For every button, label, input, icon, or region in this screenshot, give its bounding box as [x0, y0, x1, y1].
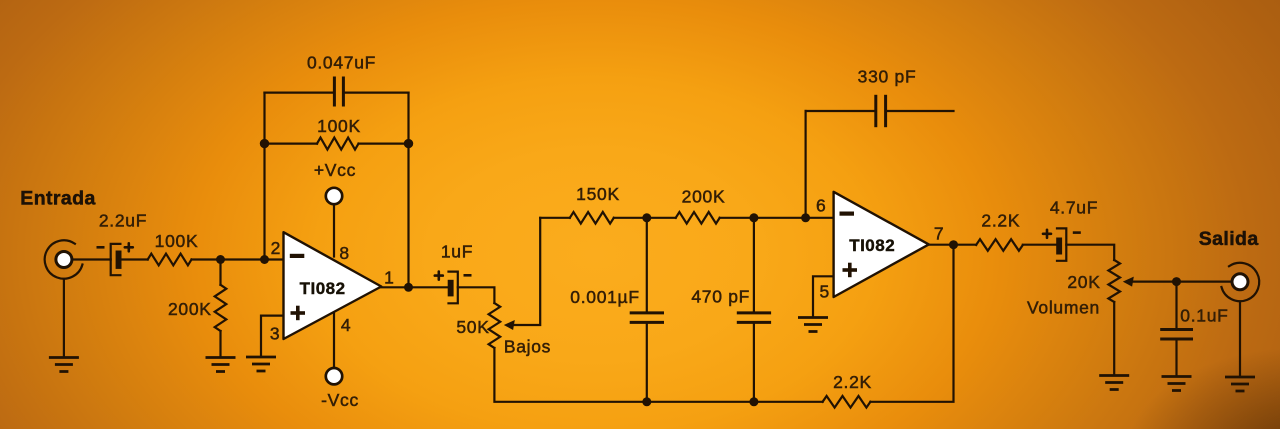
ground G3 (U1 pin3): [246, 357, 276, 371]
svg-text:200K: 200K: [168, 299, 212, 319]
svg-text:20K: 20K: [1067, 272, 1100, 292]
svg-text:3: 3: [270, 324, 280, 344]
wire J1 down to ground: [63, 279, 65, 356]
wire U2 pin5 to ground: [813, 276, 834, 317]
svg-text:Bajos: Bajos: [504, 337, 551, 357]
wire 330pF loop left vertical: [804, 111, 806, 218]
resistor R8 2.2K bottom: [823, 396, 871, 408]
svg-text:Salida: Salida: [1199, 228, 1259, 250]
svg-text:4: 4: [341, 315, 351, 335]
terminal -Vcc circle: [326, 368, 342, 384]
junction U2 pin6: [801, 213, 810, 222]
svg-text:TI082: TI082: [849, 236, 895, 255]
svg-text:0.1uF: 0.1uF: [1180, 306, 1228, 326]
wire pot bottom to bottom rail: [494, 348, 822, 402]
potentiometer R4 50K: [489, 303, 501, 348]
wire R5 to R6: [614, 217, 676, 219]
capacitor C3 bar plate: [448, 280, 454, 297]
svg-text:Volumen: Volumen: [1027, 298, 1100, 318]
svg-text:7: 7: [934, 224, 944, 244]
resistor R7 2.2K top: [976, 239, 1023, 251]
minus label C7: [1073, 231, 1081, 234]
terminal +Vcc circle: [326, 188, 342, 204]
wire top loop right: [343, 91, 408, 93]
wire C1 to R1: [122, 258, 148, 260]
wire U2 output pin7: [929, 244, 976, 246]
wire bottom rail right segment up to U2 output: [870, 245, 953, 402]
minus sign U1: [290, 254, 305, 258]
svg-text:-Vcc: -Vcc: [321, 390, 359, 410]
resistor R2 200K vertical: [215, 285, 227, 331]
svg-text:1: 1: [384, 268, 394, 288]
wire 330pF loop top left: [806, 110, 876, 112]
capacitor C7 4.7uF bracket plate: [1057, 228, 1066, 260]
wire node A down to R2: [219, 260, 221, 285]
wire +Vcc terminal to U1 pin8: [333, 204, 335, 256]
svg-text:6: 6: [816, 196, 826, 216]
svg-text:+Vcc: +Vcc: [314, 160, 356, 180]
arrowhead 50K wiper: [504, 320, 515, 330]
minus sign U2: [840, 212, 855, 216]
arrowhead 20K wiper: [1123, 277, 1134, 287]
plus label C3: [435, 272, 443, 280]
wire R2 to ground: [219, 331, 221, 357]
wire 20K pot bottom to ground: [1113, 302, 1115, 375]
junction node A (R1/R2): [216, 255, 225, 264]
capacitor C6 330pF plates: [874, 96, 877, 125]
wire C7 to corner down to 20K pot: [1066, 245, 1114, 260]
junction bottom rail C5: [749, 397, 758, 406]
capacitor C4 0.001uF plates: [631, 311, 662, 314]
ground G6 (0.1uF): [1162, 377, 1192, 391]
svg-text:100K: 100K: [155, 231, 199, 251]
svg-text:100K: 100K: [317, 116, 361, 136]
ground G2 (200K): [206, 358, 236, 372]
svg-text:5: 5: [820, 282, 830, 302]
plus label C1: [125, 243, 133, 251]
svg-text:150K: 150K: [576, 184, 620, 204]
resistor R5 150K: [570, 212, 614, 224]
connector J2 center pin: [1232, 274, 1248, 290]
wire R6 to U2 pin6: [720, 217, 834, 219]
capacitor C3 1uF bracket plate: [449, 272, 458, 304]
minus label C3: [464, 274, 472, 277]
connector J1 center pin: [56, 252, 72, 268]
plus sign U2: [843, 268, 858, 272]
svg-text:0.047uF: 0.047uF: [307, 53, 376, 73]
wire top loop left: [265, 91, 335, 93]
junction U2 output: [949, 240, 958, 249]
potentiometer R9 20K: [1108, 260, 1120, 302]
junction fb left: [260, 139, 269, 148]
capacitor C7 bar plate: [1056, 238, 1062, 255]
svg-text:2.2uF: 2.2uF: [99, 211, 147, 231]
svg-text:2: 2: [271, 238, 281, 258]
resistor R1 100K: [148, 254, 192, 266]
svg-text:4.7uF: 4.7uF: [1050, 198, 1098, 218]
svg-text:8: 8: [339, 243, 349, 263]
wire mid rail left: [540, 217, 570, 219]
svg-text:Entrada: Entrada: [20, 188, 95, 210]
wire C3 to corner down to pot: [458, 287, 495, 303]
capacitor C5 470pF leads: [753, 218, 755, 312]
wire U1 pin4 to -Vcc terminal: [333, 313, 335, 369]
svg-text:50K: 50K: [456, 317, 489, 337]
junction fb right: [404, 139, 413, 148]
connector J1 Entrada outer ring: [45, 240, 83, 278]
ground G7 (output jack): [1225, 377, 1255, 391]
junction U1 output: [404, 283, 413, 292]
capacitor C1 2.2uF bracket plate: [111, 244, 121, 275]
capacitor C5 470pF plates: [738, 311, 769, 314]
capacitor C1 bar plate: [116, 251, 122, 269]
svg-text:2.2K: 2.2K: [981, 211, 1020, 231]
wire U1 pin3 to ground: [261, 316, 284, 356]
ground G4 (U2 pin5): [798, 318, 828, 332]
resistor R3 100K feedback: [317, 138, 359, 150]
capacitor C8 0.1uF plates: [1162, 328, 1192, 331]
plus sign U1: [291, 311, 306, 315]
op-amp U1 TI082 triangle: [284, 232, 382, 339]
capacitor C8 0.1uF leads: [1175, 282, 1177, 328]
wire 50K wiper arm to mid rail: [512, 218, 541, 325]
capacitor C2 0.047uF plates: [333, 78, 336, 105]
wire J1 to C1: [71, 258, 111, 260]
wire feedback left vertical: [263, 93, 265, 260]
junction mid rail C4: [642, 213, 651, 222]
svg-text:330 pF: 330 pF: [858, 67, 917, 87]
wire R7 to C7: [1023, 244, 1057, 246]
junction mid rail C5: [749, 213, 758, 222]
connector J2 Salida outer ring: [1221, 263, 1259, 301]
svg-text:0.001µF: 0.001µF: [570, 287, 639, 307]
wire fb resistor row right: [359, 143, 409, 145]
svg-text:2.2K: 2.2K: [833, 372, 872, 392]
resistor R6 200K: [676, 212, 720, 224]
minus label C1: [97, 246, 105, 249]
junction U1 pin2: [260, 255, 269, 264]
op-amp U2 TI082 triangle: [834, 192, 929, 297]
wire 330pF loop top right: [886, 110, 954, 112]
svg-text:200K: 200K: [682, 187, 726, 207]
wire 20K wiper arm to node B: [1130, 281, 1232, 283]
svg-text:1uF: 1uF: [441, 242, 473, 262]
ground G1 (input jack): [49, 358, 79, 372]
wire right vertical of feedback: [407, 93, 409, 288]
svg-text:470 pF: 470 pF: [691, 287, 750, 307]
wire U1 output pin1: [381, 286, 447, 288]
junction bottom rail C4: [642, 397, 651, 406]
capacitor C4 0.001uF leads: [646, 218, 648, 312]
ground G5 (20K pot): [1099, 376, 1129, 390]
plus label C7: [1043, 230, 1051, 238]
wire R1 to op-amp U1 pin2: [192, 258, 284, 260]
wire J2 down to ground: [1239, 302, 1241, 377]
junction volumen node B: [1172, 277, 1181, 286]
wire fb resistor row left: [265, 143, 318, 145]
svg-text:TI082: TI082: [300, 279, 346, 298]
